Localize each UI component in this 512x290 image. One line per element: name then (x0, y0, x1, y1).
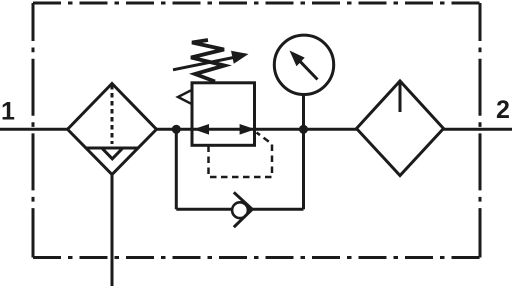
regulator pilot line (dashed feedback) (209, 133, 273, 178)
condensate drain line (111, 175, 114, 287)
node: gauge junction (299, 125, 308, 134)
regulator adjustment spring (191, 40, 225, 82)
gauge needle (300, 61, 318, 80)
node: filter outlet junction (172, 125, 181, 134)
lubricator L1 (357, 81, 444, 176)
bypass wire bottom run (176, 208, 303, 211)
svg-text:1: 1 (1, 98, 15, 126)
pressure regulator R1 body (192, 83, 255, 146)
wire: filter to regulator through to gauge node (157, 128, 357, 131)
filter with water separator F1 (68, 84, 157, 175)
regulator flow arrows (193, 124, 209, 135)
pressure gauge G1 (274, 35, 333, 94)
regulator relief vent triangle (178, 90, 192, 104)
bypass wire left leg (175, 129, 178, 209)
wire: lubricator to port 2 (444, 128, 512, 131)
wire: inlet from port 1 to filter (0, 128, 68, 131)
check valve V1 (232, 202, 248, 218)
bypass wire right leg (302, 129, 305, 209)
svg-text:2: 2 (496, 96, 510, 124)
gauge stem wire (302, 94, 305, 129)
regulator adjustment arrow (173, 57, 236, 70)
enclosure boundary (dash-dot frame) (33, 3, 480, 258)
